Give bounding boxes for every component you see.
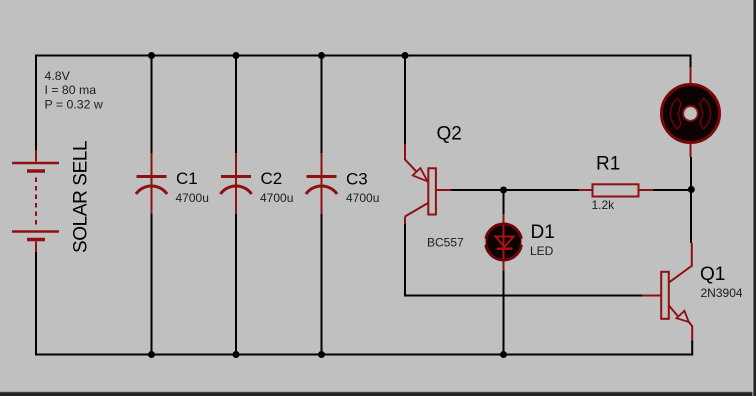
node junction dots on top rail xyxy=(148,52,409,59)
value label 2N3904 xyxy=(701,286,743,300)
battery value label 4.8V / I = 80 ma / P = 0.32 w xyxy=(45,69,103,112)
value label 4700u (C3) xyxy=(346,191,379,205)
svg-text:SOLAR SELL: SOLAR SELL xyxy=(71,141,92,253)
svg-text:Q2: Q2 xyxy=(437,124,462,145)
transistor Q1 (NPN 2N3904) xyxy=(661,272,689,322)
label C1 xyxy=(176,169,198,188)
node junction dots on bottom rail xyxy=(148,351,507,358)
wire motor bottom to junction xyxy=(690,143,693,244)
capacitor C3 xyxy=(306,177,337,195)
wire C3 branch xyxy=(321,55,323,354)
svg-text:4700u: 4700u xyxy=(176,191,209,205)
node junction motor / R1 / Q1 collector xyxy=(688,186,695,193)
wire Q2 collector down to Q1 base xyxy=(405,217,661,296)
wire C1 branch xyxy=(151,55,153,354)
svg-text:C1: C1 xyxy=(176,169,198,188)
label R1 xyxy=(596,154,620,175)
wire Q1 emitter down to bottom rail xyxy=(689,322,692,354)
node junction at D1 top xyxy=(500,187,507,194)
svg-text:P = 0.32 w: P = 0.32 w xyxy=(45,97,103,111)
svg-text:C2: C2 xyxy=(261,169,283,188)
wire motor branch from top rail xyxy=(690,55,692,85)
svg-text:R1: R1 xyxy=(596,154,620,175)
capacitor C1 xyxy=(136,177,167,195)
svg-text:4700u: 4700u xyxy=(260,191,293,205)
wire left rail upper segment xyxy=(35,55,37,153)
resistor R1 xyxy=(593,184,654,196)
LED D1 xyxy=(481,224,527,260)
svg-text:4700u: 4700u xyxy=(346,191,379,205)
wire Q2 base to R1 xyxy=(451,189,593,191)
battery label SOLAR SELL xyxy=(71,141,92,253)
svg-text:LED: LED xyxy=(530,244,554,258)
value label 4700u (C1) xyxy=(176,191,209,205)
capacitor C2 xyxy=(221,177,252,195)
label D1 xyxy=(531,222,555,243)
label Q1 xyxy=(700,264,725,285)
wire D1 branch down xyxy=(503,190,505,354)
label C3 xyxy=(346,170,368,189)
wire C2 branch xyxy=(235,55,237,354)
svg-text:I = 80 ma: I = 80 ma xyxy=(45,83,97,97)
wire Q2 emitter branch from top rail xyxy=(405,55,417,172)
wire R1 right lead to motor node xyxy=(653,189,692,191)
value label 1.2k xyxy=(592,198,616,212)
svg-text:C3: C3 xyxy=(346,170,368,189)
value label 4700u (C2) xyxy=(260,191,293,205)
wire left rail lower segment xyxy=(35,252,37,354)
svg-text:4.8V: 4.8V xyxy=(45,69,71,83)
label Q2 xyxy=(437,124,462,145)
svg-text:Q1: Q1 xyxy=(700,264,725,285)
label C2 xyxy=(261,169,283,188)
svg-text:1.2k: 1.2k xyxy=(592,198,616,212)
battery B1 SOLAR SELL xyxy=(12,150,59,252)
value label LED xyxy=(530,244,554,258)
wire bottom rail xyxy=(35,354,693,356)
transistor Q2 (PNP BC557) xyxy=(405,168,451,216)
value label BC557 xyxy=(427,235,464,249)
svg-text:BC557: BC557 xyxy=(427,235,464,249)
wire Q1 collector lead xyxy=(669,243,692,282)
wire top rail xyxy=(35,55,691,57)
svg-text:2N3904: 2N3904 xyxy=(701,286,743,300)
svg-text:D1: D1 xyxy=(531,222,555,243)
motor M1 xyxy=(662,85,720,143)
